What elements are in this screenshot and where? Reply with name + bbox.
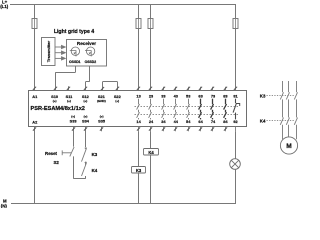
terminal label S21 [97,94,106,103]
wire: fuse F2 to terminal 13 [137,29,140,91]
motor M1 [280,137,297,154]
OSSD1 output symbol [70,47,80,56]
svg-text:(+): (+) [53,99,57,103]
svg-text:OSSD2: OSSD2 [85,60,97,64]
wire: K3 to S34 [84,127,87,148]
svg-text:(L1): (L1) [0,4,9,9]
svg-text:S35: S35 [98,118,106,123]
wire: coil K4 to ground rail [150,155,152,204]
svg-text:Reset: Reset [45,151,57,156]
supply rail L+ [10,4,236,18]
net label M (N) [1,199,8,209]
svg-text:(N): (N) [1,203,8,208]
wire: OSSD1 to terminal S10 [54,66,76,91]
wire: coil K3 to ground rail [138,173,140,204]
terminal stub S35 [100,127,103,132]
net label L+ (L1) [0,0,9,9]
receiver box U2 [67,40,107,67]
contactor K4 power contacts [267,118,298,125]
svg-text:(GND): (GND) [97,99,106,103]
OSSD2 output symbol [85,47,95,56]
terminal labels 63 64 [198,94,203,124]
light beam arrows [56,45,66,60]
relay contact 23/24 [149,99,153,132]
svg-text:(+): (+) [115,99,119,103]
wire: 14 to coil K3 [138,131,140,166]
terminal label S12 [82,94,90,103]
terminal label S33 [70,115,78,124]
terminal labels 43 44 [174,94,179,124]
terminal labels 91 92 [233,94,238,124]
svg-text:(+): (+) [67,99,71,103]
terminal label S10 [51,94,58,103]
wire: fuse F4 to terminal 91 [234,29,237,91]
terminal label S22 [114,94,122,103]
wire: fuse F1 to terminal A1 [33,29,36,91]
terminal labels 83 84 [223,94,228,124]
relay contact 53/54 [187,87,191,132]
wire: S33 down [72,127,75,147]
svg-text:M: M [286,143,292,150]
coil K3 [132,167,146,174]
relay NC contact 91/92 [233,99,240,132]
label OSSD1 OSSD2 [69,60,96,64]
svg-text:PSR-ESAM4/8x1/1x2: PSR-ESAM4/8x1/1x2 [31,106,85,112]
relay contact 43/44 [174,87,178,132]
wire: OSSD2 to terminal S12 [84,66,90,91]
three phase lines [283,81,297,139]
contactor K3 power contacts [267,92,298,99]
svg-text:A2: A2 [32,119,38,124]
terminal label S34 [82,115,90,124]
fuse F4 [233,19,238,29]
ground rail M (N) [11,203,236,205]
relay contact 33/34 [162,87,166,132]
wire: rail to fuse F1 [34,4,36,18]
fuse F2 [136,19,141,29]
jumper wire S21 to S22 [101,82,119,91]
svg-text:K3: K3 [92,152,98,157]
svg-text:K4: K4 [148,150,154,155]
aux contact K3 [82,147,87,161]
wire: A2 to ground rail [33,127,36,204]
reset button S2 [62,147,74,157]
relay contact 63/64 [199,87,203,132]
terminal labels 13 14 [136,94,141,124]
wire: 24 to coil K4 [150,131,152,149]
terminal labels 23 24 [149,94,154,124]
coil K4 [144,149,159,156]
svg-text:OSSD1: OSSD1 [69,60,81,64]
relay contact 73/74 [211,87,215,132]
svg-text:K3: K3 [136,168,142,173]
fuse F1 [32,19,37,29]
terminal labels 33 34 [161,94,166,124]
svg-text:(+): (+) [84,99,88,103]
terminal stub S11 [67,86,70,90]
svg-text:K4: K4 [260,119,266,124]
fuse F3 [148,19,153,29]
safety relay U1 PSR-ESAM4/8x1/1x2 body [29,91,247,127]
svg-text:K3: K3 [260,93,266,98]
terminal label S35 [98,115,106,124]
svg-text:S2: S2 [54,160,60,165]
indicator lamp H1 [230,159,241,170]
wire: between K4 and K3 [85,162,87,165]
relay contact 83/84 [224,87,228,132]
wire: 92 to lamp [235,131,237,159]
wire: lamp to ground rail [235,169,237,203]
svg-text:Receiver: Receiver [77,41,96,46]
terminal label S11 [66,94,74,103]
aux contact K4 [82,162,87,176]
svg-text:Light grid type 4: Light grid type 4 [54,29,94,35]
svg-text:Transmitter: Transmitter [46,40,51,62]
svg-text:K4: K4 [92,168,98,173]
wire: fuse F3 to terminal 23 [149,29,152,91]
wire: rail to fuse F3 [150,4,152,18]
terminal labels 53 54 [186,94,191,124]
wire: rail to fuse F2 [138,4,140,18]
wire: S2 to loop bottom [74,156,86,178]
svg-text:S33: S33 [70,118,78,123]
svg-text:A1: A1 [32,94,38,99]
relay contact 13/14 [137,99,141,132]
transmitter box [42,38,56,66]
terminal labels 73 74 [211,94,216,124]
mechanical link dashed lines [135,107,239,115]
svg-text:S34: S34 [82,118,90,123]
